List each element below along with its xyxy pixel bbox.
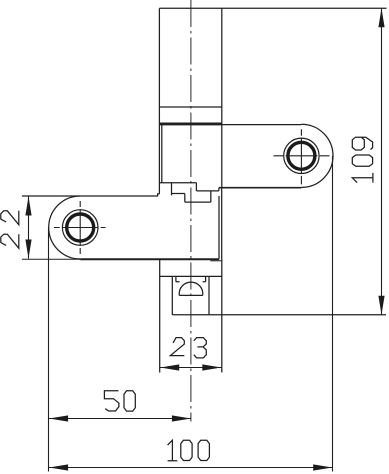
upper arm top edge xyxy=(159,124,301,126)
bottom bracket right edge + 23 extension xyxy=(221,259,223,373)
centerline (hinge axis) xyxy=(190,0,192,422)
dimension 50 line xyxy=(49,418,191,420)
extension line right (100) xyxy=(332,156,334,472)
barrel right edge through arm xyxy=(221,124,223,259)
dimension 100 line xyxy=(49,467,333,469)
barrel left inner edge xyxy=(161,124,163,182)
chamber left wall xyxy=(171,276,173,314)
dimension 23 line xyxy=(160,367,222,369)
lower arm bottom edge + 22 extension xyxy=(22,258,80,260)
upper arm bottom edge xyxy=(219,187,302,189)
parting line steps between leaves xyxy=(160,183,219,202)
barrel left edge through arm xyxy=(158,124,160,194)
bottom bracket left edge + 23 extension xyxy=(159,259,161,373)
pin hole lower: crosshair xyxy=(54,227,106,229)
top plate left edge xyxy=(158,8,160,124)
pin hole upper: outer circle xyxy=(284,138,319,173)
top plate top edge + 109 extension line xyxy=(159,7,386,9)
pin hole upper: crosshair xyxy=(273,155,329,157)
pin hole upper: bushing ring xyxy=(288,142,315,169)
lower arm rounded end xyxy=(49,196,80,259)
text 22 (rotated) xyxy=(1,211,19,248)
top plate internal edge xyxy=(159,106,221,108)
text 109 (rotated) xyxy=(352,137,373,182)
text 100 xyxy=(168,440,210,461)
text 23 xyxy=(170,338,206,358)
upper arm top edge thick over barrel xyxy=(159,123,221,126)
bracket joint line right of arm xyxy=(210,260,221,262)
chamber bottom + 109 extension line xyxy=(172,314,386,316)
text 50 xyxy=(104,391,135,411)
lower arm right end edge xyxy=(218,196,220,259)
ball socket lips xyxy=(176,276,206,281)
ball xyxy=(179,282,203,295)
pin hole lower: bushing ring xyxy=(67,214,94,241)
upper arm rounded end xyxy=(301,124,333,187)
chamber right wall xyxy=(208,276,210,314)
dimension 22 line xyxy=(28,197,30,259)
pin hole lower: outer circle xyxy=(62,210,98,246)
bracket plate bottom edge xyxy=(160,275,222,277)
step below upper arm bottom xyxy=(218,188,220,191)
dimension 109 line xyxy=(381,8,383,315)
extension line left (50/100) xyxy=(48,228,50,472)
lower arm top edge + 22 extension xyxy=(22,194,160,196)
top plate right edge xyxy=(221,8,223,124)
